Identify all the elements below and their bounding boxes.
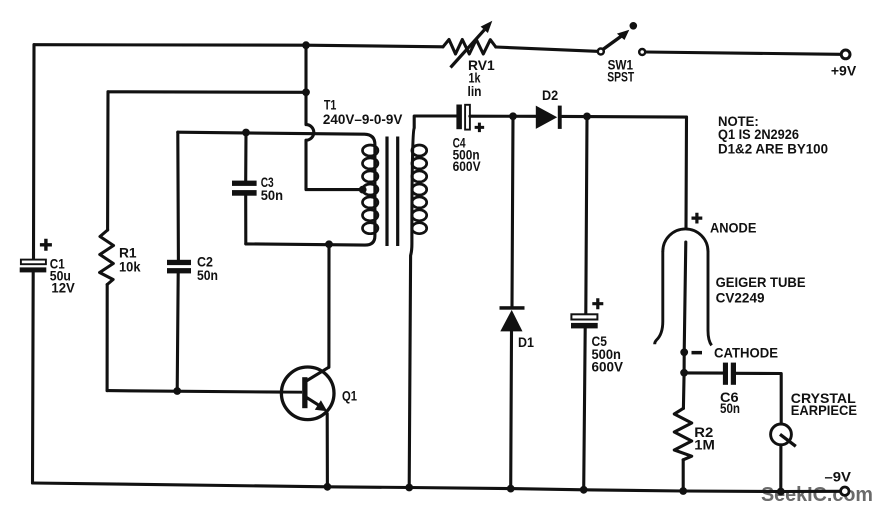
svg-text:50n: 50n	[720, 400, 740, 416]
svg-text:50n: 50n	[197, 267, 218, 283]
svg-text:ANODE: ANODE	[710, 219, 756, 235]
svg-text:–9V: –9V	[825, 469, 852, 485]
svg-text:240V–9-0-9V: 240V–9-0-9V	[323, 111, 403, 127]
svg-text:600V: 600V	[453, 158, 482, 174]
svg-text:600V: 600V	[592, 358, 624, 374]
svg-text:Q1: Q1	[342, 388, 357, 404]
svg-text:50n: 50n	[261, 187, 283, 203]
svg-text:+9V: +9V	[831, 62, 857, 78]
svg-text:1M: 1M	[694, 437, 715, 453]
svg-text:GEIGER TUBE: GEIGER TUBE	[716, 274, 806, 290]
svg-text:D1&2 ARE BY100: D1&2 ARE BY100	[718, 141, 828, 157]
svg-text:SPST: SPST	[607, 69, 634, 85]
svg-text:D1: D1	[518, 334, 534, 350]
svg-text:CV2249: CV2249	[716, 290, 765, 306]
svg-text:D2: D2	[542, 87, 558, 103]
svg-text:CATHODE: CATHODE	[714, 345, 778, 361]
svg-text:SeekIC.com: SeekIC.com	[761, 483, 873, 506]
svg-text:EARPIECE: EARPIECE	[791, 402, 857, 418]
svg-text:lin: lin	[468, 83, 482, 99]
svg-text:10k: 10k	[119, 258, 141, 274]
svg-text:12V: 12V	[51, 280, 75, 296]
